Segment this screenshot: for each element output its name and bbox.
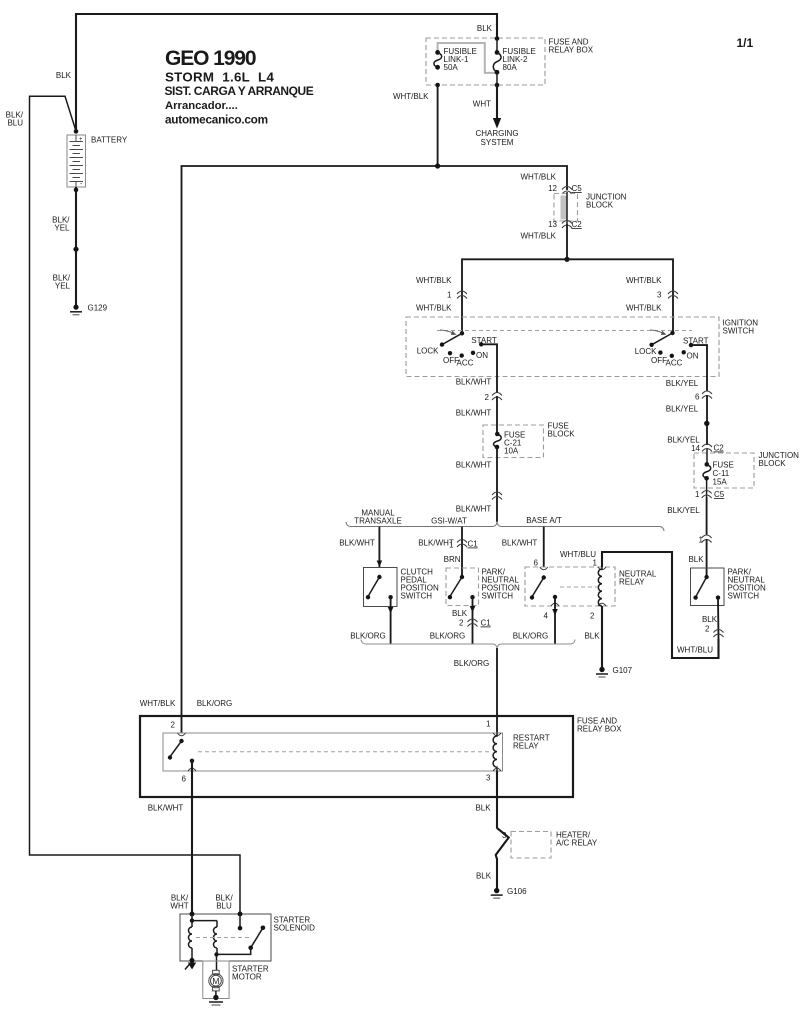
svg-text:SWITCH: SWITCH xyxy=(482,592,514,601)
svg-text:2: 2 xyxy=(705,625,710,634)
svg-text:ACC: ACC xyxy=(666,358,683,367)
svg-text:6: 6 xyxy=(534,559,539,568)
park/neutral position switch (middle) dashed box xyxy=(446,568,479,606)
svg-text:1: 1 xyxy=(695,490,700,499)
solenoid internal wiring top xyxy=(190,914,217,927)
BLK/ORG bus y644 (brace) xyxy=(361,640,575,649)
svg-text:12: 12 xyxy=(548,184,557,193)
wire WHT/BLK fuse box to junction bus xyxy=(437,85,439,166)
svg-text:ON: ON xyxy=(687,351,699,360)
junction block 2 dashed box xyxy=(694,453,754,488)
wire BLK/ORG bus to restart relay pin1 xyxy=(496,648,498,733)
svg-text:BLK/YEL: BLK/YEL xyxy=(666,379,699,388)
wire restart relay pin3 down xyxy=(496,771,498,829)
ground starter motor xyxy=(209,995,223,1005)
svg-text:50A: 50A xyxy=(444,63,459,72)
svg-text:1/1: 1/1 xyxy=(737,36,754,50)
solenoid pull-in coil xyxy=(189,927,192,948)
ground G107 xyxy=(596,667,608,677)
svg-text:1: 1 xyxy=(449,541,454,550)
svg-text:STORM 1.6L L4: STORM 1.6L L4 xyxy=(165,70,274,85)
mechanical linkage dashed line xyxy=(437,330,692,332)
svg-text:6: 6 xyxy=(695,393,700,402)
wire WHT to charging system (arrow) xyxy=(493,85,501,129)
svg-text:BLK: BLK xyxy=(688,555,704,564)
clutch pedal position switch box xyxy=(364,568,398,607)
connector 2 C1 xyxy=(468,619,478,627)
svg-text:SWITCH: SWITCH xyxy=(723,327,755,336)
wire solenoid to starter motor xyxy=(216,954,218,970)
middle PNP contacts xyxy=(448,575,475,600)
battery B1 xyxy=(67,129,86,188)
restart relay coil xyxy=(493,733,497,771)
svg-text:BLOCK: BLOCK xyxy=(548,430,576,439)
svg-text:BLK: BLK xyxy=(56,71,72,80)
svg-text:BLK/WHT: BLK/WHT xyxy=(502,538,538,547)
svg-text:CHARGING: CHARGING xyxy=(475,129,518,138)
svg-text:1: 1 xyxy=(447,291,452,300)
svg-text:BLK/ORG: BLK/ORG xyxy=(513,632,549,641)
fuse and relay box (bottom, solid) xyxy=(140,716,573,797)
connector (unnumbered) on BLK/WHT xyxy=(492,492,502,500)
ground G129 xyxy=(70,305,82,315)
wire middle PNP to BLK/ORG bus xyxy=(472,597,474,644)
wire junction block to ignition bus xyxy=(566,224,568,259)
wire START right to BLK/YEL chain xyxy=(691,345,707,391)
svg-text:WHT/BLK: WHT/BLK xyxy=(520,232,556,241)
wire BLK to right PNP switch xyxy=(706,539,708,577)
svg-text:WHT/BLU: WHT/BLU xyxy=(560,550,596,559)
node: dot solenoid BLK/BLU entry xyxy=(238,912,243,917)
svg-text:BLK/WHT: BLK/WHT xyxy=(456,505,492,514)
svg-text:A/C RELAY: A/C RELAY xyxy=(556,839,598,848)
svg-text:SWITCH: SWITCH xyxy=(401,592,433,601)
wire branch to clutch pedal switch xyxy=(378,527,380,567)
options bus y526 (brace) xyxy=(346,522,664,531)
fuse block dashed box xyxy=(483,425,544,458)
svg-text:MOTOR: MOTOR xyxy=(232,973,262,982)
svg-text:80A: 80A xyxy=(503,63,518,72)
connector 1 (left ignition feed) xyxy=(457,291,467,299)
svg-text:WHT: WHT xyxy=(170,902,188,911)
svg-text:G106: G106 xyxy=(507,887,527,896)
solenoid hold-in coil xyxy=(214,927,217,948)
svg-text:BLK/ORG: BLK/ORG xyxy=(454,659,490,668)
svg-text:START: START xyxy=(683,337,709,346)
svg-text:2: 2 xyxy=(171,721,176,730)
connector 3 (right ignition feed) xyxy=(668,291,678,299)
svg-text:C5: C5 xyxy=(714,490,725,499)
solenoid case ground arrow xyxy=(185,963,196,970)
wire restart relay pin6 to starter solenoid xyxy=(191,761,193,914)
restart relay switch xyxy=(168,739,194,763)
svg-text:BLK/WHT: BLK/WHT xyxy=(456,378,492,387)
svg-text:ON: ON xyxy=(476,351,488,360)
svg-text:Arrancador....: Arrancador.... xyxy=(165,100,238,112)
connector 1 (right PNP feed) xyxy=(702,535,712,543)
svg-text:BLK: BLK xyxy=(702,615,718,624)
svg-text:BLK: BLK xyxy=(477,24,493,33)
svg-text:2: 2 xyxy=(459,619,464,628)
fusible link-1 50A xyxy=(434,50,442,70)
svg-text:6: 6 xyxy=(182,775,187,784)
svg-text:ACC: ACC xyxy=(457,358,474,367)
svg-text:13: 13 xyxy=(548,220,557,229)
svg-text:RELAY BOX: RELAY BOX xyxy=(577,725,622,734)
svg-text:BLK/WHT: BLK/WHT xyxy=(339,538,375,547)
svg-text:BLK/WHT: BLK/WHT xyxy=(148,804,184,813)
wire branch BASE A/T to neutral relay xyxy=(543,527,545,567)
node: junction dot on bus xyxy=(435,163,440,168)
svg-text:BRN: BRN xyxy=(444,555,461,564)
wire branch to middle PNP switch xyxy=(461,527,463,577)
solenoid linkage dashed xyxy=(196,937,249,939)
heater/AC relay dashed box xyxy=(511,832,551,859)
svg-text:WHT/BLK: WHT/BLK xyxy=(416,304,452,313)
svg-text:BLK: BLK xyxy=(476,872,492,881)
svg-text:C5: C5 xyxy=(572,184,583,193)
junction block (C5/C2) dashed box xyxy=(554,194,578,222)
svg-text:G107: G107 xyxy=(613,666,633,675)
starter solenoid box xyxy=(180,914,271,961)
svg-text:1: 1 xyxy=(593,559,598,568)
connector 14 C2 xyxy=(702,444,712,452)
neutral relay coil xyxy=(598,567,602,606)
wire BLK/BLU branch battery to bottom left run xyxy=(30,96,241,914)
svg-text:C1: C1 xyxy=(468,540,479,549)
restart relay pin arcs bottom xyxy=(188,768,501,771)
svg-text:BASE A/T: BASE A/T xyxy=(526,516,562,525)
gray jumper wire inside fuse box xyxy=(438,43,496,73)
svg-text:GSI-W/AT: GSI-W/AT xyxy=(431,517,467,526)
node: dot at box bottom left leg xyxy=(435,83,440,88)
connector 6 (BLK/YEL chain) xyxy=(702,391,712,399)
svg-text:C1: C1 xyxy=(481,619,492,628)
svg-text:WHT: WHT xyxy=(473,100,491,109)
solenoid coil grounds/joins xyxy=(190,948,219,963)
wire BLK/YEL down to right PNP xyxy=(706,497,708,535)
svg-text:BLK/WHT: BLK/WHT xyxy=(456,461,492,470)
svg-text:BLK/YEL: BLK/YEL xyxy=(667,506,700,515)
svg-text:LOCK: LOCK xyxy=(635,347,657,356)
wire inside junction block 2 xyxy=(706,449,708,464)
node: dot at box bottom right leg xyxy=(495,83,500,88)
svg-text:BLOCK: BLOCK xyxy=(586,201,614,210)
svg-text:10A: 10A xyxy=(504,447,519,456)
svg-text:BLK: BLK xyxy=(584,632,600,641)
node: splice dot on BLK/YEL xyxy=(704,421,709,426)
title block xyxy=(165,47,314,127)
fusible link-2 80A xyxy=(493,39,501,86)
svg-text:WHT/BLK: WHT/BLK xyxy=(393,92,429,101)
svg-text:4: 4 xyxy=(544,612,549,621)
ignition switch left half xyxy=(440,330,484,358)
svg-text:1: 1 xyxy=(699,536,704,545)
node: junction dot at fuse box top xyxy=(495,36,500,41)
svg-text:15A: 15A xyxy=(713,478,728,487)
svg-text:YEL: YEL xyxy=(55,282,71,291)
wire BLK/WHT below fuse block xyxy=(496,447,498,522)
svg-text:G129: G129 xyxy=(88,303,108,312)
svg-text:BLK/ORG: BLK/ORG xyxy=(197,699,233,708)
neutral relay dashed box xyxy=(525,567,615,606)
svg-text:3: 3 xyxy=(657,291,662,300)
svg-text:WHT/BLK: WHT/BLK xyxy=(626,304,662,313)
svg-text:BLK: BLK xyxy=(475,804,491,813)
node: dot solenoid BLK/WHT entry xyxy=(190,912,195,917)
svg-text:WHT/BLK: WHT/BLK xyxy=(140,699,176,708)
svg-text:BLK/ORG: BLK/ORG xyxy=(430,632,466,641)
svg-text:M: M xyxy=(212,976,219,986)
wire neutral relay pin4 to BLK/ORG bus xyxy=(554,597,556,644)
svg-text:3: 3 xyxy=(502,831,507,840)
wire to C5 xyxy=(706,478,708,497)
right PNP contacts xyxy=(693,575,720,600)
fuse C-21 10A xyxy=(494,432,502,450)
connector 1 C5 xyxy=(702,491,712,499)
svg-text:BLK/YEL: BLK/YEL xyxy=(666,405,699,414)
svg-text:SYSTEM: SYSTEM xyxy=(481,138,514,147)
svg-text:RELAY BOX: RELAY BOX xyxy=(549,46,594,55)
connector 2 (right PNP) xyxy=(714,630,724,638)
wire neutral relay pin2 to G107 xyxy=(601,606,603,670)
wire BLK/YEL battery negative to G129 xyxy=(75,187,77,307)
svg-text:BLK: BLK xyxy=(452,609,468,618)
svg-text:automecanico.com: automecanico.com xyxy=(165,113,268,127)
node: dot at ignition bus xyxy=(564,257,569,262)
svg-text:WHT/BLK: WHT/BLK xyxy=(416,276,452,285)
svg-text:1: 1 xyxy=(486,720,491,729)
neutral relay linkage dashed xyxy=(560,586,597,588)
neutral relay switch xyxy=(530,575,557,599)
fuse and relay box (top, dashed) xyxy=(426,38,545,85)
svg-text:BLK/WHT: BLK/WHT xyxy=(456,409,492,418)
ignition switch right half xyxy=(649,330,693,358)
neutral relay pin arcs xyxy=(540,567,606,606)
svg-text:WHT/BLU: WHT/BLU xyxy=(677,646,713,655)
splice dot on BLK/YEL xyxy=(73,247,78,252)
svg-text:C2: C2 xyxy=(714,444,725,453)
svg-text:SIST. CARGA Y ARRANQUE: SIST. CARGA Y ARRANQUE xyxy=(165,84,314,98)
wire BLK/YEL to junction block 2 xyxy=(706,395,708,445)
connector 13 C2 xyxy=(562,221,572,229)
svg-text:LOCK: LOCK xyxy=(417,347,439,356)
svg-text:WHT/BLK: WHT/BLK xyxy=(520,173,556,182)
svg-text:14: 14 xyxy=(691,444,700,453)
solenoid switch xyxy=(217,914,266,954)
wire right PNP down xyxy=(717,598,720,639)
wire WHT/BLU loop relay pin1 to right PNP xyxy=(602,552,719,658)
connector 2 (fuse chain) xyxy=(492,393,502,401)
wire junction bus y166 xyxy=(182,166,568,733)
svg-text:BLK/ORG: BLK/ORG xyxy=(350,632,386,641)
restart relay inner box xyxy=(163,733,503,771)
right park/neutral position switch box xyxy=(691,568,725,606)
svg-text:RELAY: RELAY xyxy=(619,578,645,587)
gray internal bar of junction block xyxy=(561,196,568,220)
svg-text:YEL: YEL xyxy=(54,224,70,233)
svg-text:TRANSAXLE: TRANSAXLE xyxy=(354,516,402,525)
connector 12 C5 xyxy=(562,187,572,195)
clutch switch contacts xyxy=(366,575,393,600)
svg-text:+: + xyxy=(79,137,83,143)
svg-text:BLOCK: BLOCK xyxy=(759,459,787,468)
svg-text:BLU: BLU xyxy=(216,902,232,911)
svg-text:2: 2 xyxy=(485,393,490,402)
wire BLK/WHT to fuse block xyxy=(496,396,498,434)
connector 1 C1 xyxy=(457,540,467,548)
svg-text:WHT/BLK: WHT/BLK xyxy=(626,276,662,285)
svg-text:BATTERY: BATTERY xyxy=(91,135,128,144)
svg-text:GEO 1990: GEO 1990 xyxy=(165,47,256,70)
svg-text:C2: C2 xyxy=(572,220,583,229)
restart relay pin arcs top xyxy=(178,733,502,736)
wire BLK zigzag to G106 xyxy=(496,828,509,891)
svg-text:BLU: BLU xyxy=(7,119,23,128)
wire ignition feed bus y259 xyxy=(462,259,673,333)
fuse C-11 15A xyxy=(703,462,711,481)
svg-text:2: 2 xyxy=(590,612,595,621)
starter motor M1 xyxy=(203,961,229,999)
wire START left to fuse chain xyxy=(481,344,497,393)
restart relay linkage dashed xyxy=(198,751,491,753)
svg-text:RELAY: RELAY xyxy=(513,742,539,751)
wire BLK battery to fuse box (top run) xyxy=(76,14,497,132)
svg-text:SOLENOID: SOLENOID xyxy=(274,924,316,933)
ignition switch dashed box xyxy=(406,317,719,377)
svg-text:3: 3 xyxy=(486,774,491,783)
wire clutch switch to BLK/ORG bus xyxy=(390,597,392,644)
svg-text:SWITCH: SWITCH xyxy=(728,592,760,601)
ground G106 xyxy=(491,888,503,898)
